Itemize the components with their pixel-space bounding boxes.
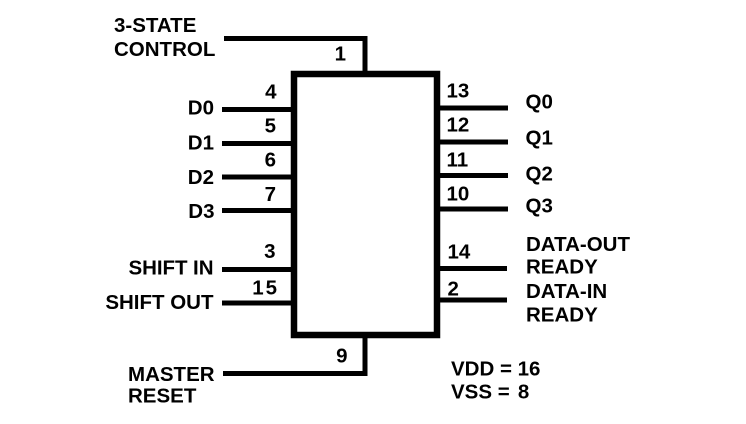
- svg-text:SHIFT OUT: SHIFT OUT: [105, 291, 214, 314]
- svg-text:VDD = 16: VDD = 16: [451, 358, 540, 381]
- wire D3 pin 7: [222, 208, 294, 213]
- svg-text:READY: READY: [526, 256, 598, 279]
- svg-text:MASTER: MASTER: [128, 363, 215, 386]
- node MASTER RESET: [128, 363, 215, 408]
- svg-text:D2: D2: [188, 166, 214, 189]
- wire D2 pin 6: [222, 175, 294, 180]
- svg-text:Q1: Q1: [526, 127, 553, 150]
- svg-text:7: 7: [265, 183, 276, 206]
- svg-text:12: 12: [447, 114, 470, 137]
- svg-text:1: 1: [335, 43, 346, 66]
- svg-text:Q0: Q0: [526, 91, 553, 114]
- wire Q0 pin 13: [437, 106, 508, 111]
- wire pin 1 (3-state control): [224, 39, 365, 76]
- svg-text:5: 5: [265, 115, 276, 138]
- node DATA-IN READY: [526, 280, 607, 327]
- svg-text:DATA-IN: DATA-IN: [526, 280, 607, 303]
- wire DATA-OUT READY pin 14: [437, 266, 507, 271]
- svg-text:CONTROL: CONTROL: [114, 38, 215, 61]
- svg-text:13: 13: [447, 80, 470, 103]
- svg-text:3-STATE: 3-STATE: [114, 14, 196, 37]
- svg-text:D1: D1: [188, 132, 214, 155]
- wire SHIFT IN pin 3: [222, 267, 294, 272]
- label 3-STATE CONTROL: [114, 14, 215, 61]
- IC body U1: [294, 74, 437, 335]
- svg-text:2: 2: [448, 278, 459, 301]
- wire Q3 pin 10: [437, 207, 508, 212]
- svg-text:Q2: Q2: [526, 163, 553, 186]
- svg-text:6: 6: [265, 149, 276, 172]
- svg-text:11: 11: [447, 149, 469, 172]
- wire MASTER RESET pin 9: [223, 334, 365, 374]
- svg-text:RESET: RESET: [128, 385, 197, 408]
- svg-text:D3: D3: [188, 200, 214, 223]
- svg-text:SHIFT IN: SHIFT IN: [129, 257, 214, 280]
- wire Q2 pin 11: [437, 173, 508, 178]
- wire D0 pin 4: [222, 107, 294, 112]
- svg-text:4: 4: [265, 81, 277, 104]
- wire Q1 pin 12: [437, 140, 508, 145]
- svg-text:14: 14: [448, 241, 471, 264]
- wire SHIFT OUT pin 15: [222, 301, 294, 306]
- svg-text:Q3: Q3: [526, 195, 553, 218]
- svg-text:10: 10: [447, 183, 470, 206]
- svg-text:3: 3: [264, 240, 275, 263]
- svg-text:DATA-OUT: DATA-OUT: [526, 233, 630, 256]
- svg-text:D0: D0: [188, 97, 214, 120]
- svg-text:VSS = 8: VSS = 8: [451, 381, 529, 404]
- svg-text:9: 9: [336, 345, 347, 368]
- wire D1 pin 5: [222, 141, 294, 146]
- node DATA-OUT READY: [526, 233, 630, 279]
- svg-text:READY: READY: [526, 304, 598, 327]
- wire DATA-IN READY pin 2: [437, 298, 507, 303]
